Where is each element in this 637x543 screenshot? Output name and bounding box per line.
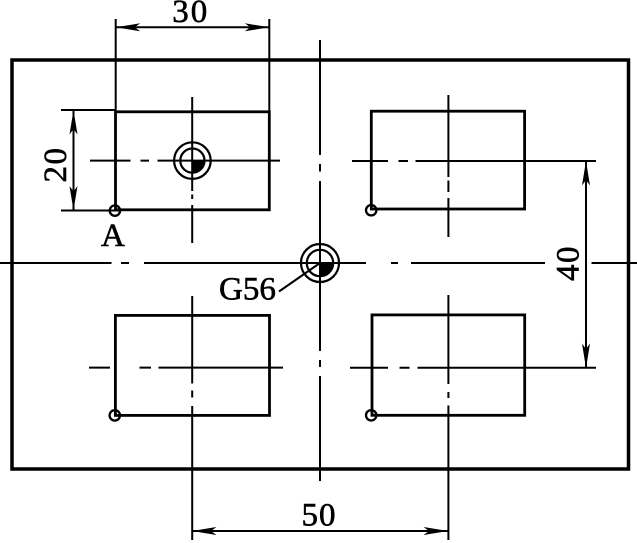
- datum target symbol at top-left pocket center: [174, 142, 211, 179]
- plate outline: [12, 60, 629, 469]
- corner node circle at point A (top-left pocket): [110, 205, 120, 215]
- corner node circle (bottom-right pocket): [366, 410, 376, 420]
- datum target symbol at plate center (G56 origin): [301, 244, 339, 282]
- dimension 40: dimension line with arrows: [585, 161, 587, 368]
- plate vertical centerline: [319, 40, 321, 481]
- centerline vertical, top-right pocket: [447, 95, 449, 237]
- svg-text:30: 30: [172, 0, 209, 30]
- dimension 50: dimension line with arrows: [192, 530, 448, 532]
- svg-text:20: 20: [38, 147, 74, 183]
- pocket rectangle bottom-left: [115, 315, 269, 415]
- dimension 30: dimension line with arrows: [116, 26, 270, 28]
- centerline horizontal, bottom-left pocket: [89, 367, 283, 369]
- dimension 20: dimension line with arrows: [73, 110, 75, 211]
- centerline vertical, bottom-left pocket (also 50-dim extension): [191, 296, 193, 540]
- centerline horizontal, top-left pocket: [90, 160, 280, 162]
- pocket rectangle top-right: [371, 111, 524, 209]
- svg-text:A: A: [101, 218, 125, 254]
- centerline horizontal, top-right pocket (also 40-dim extension): [352, 160, 596, 162]
- dimension 20: extension lines: [61, 110, 120, 211]
- pocket rectangle bottom-right: [372, 315, 525, 415]
- pocket rectangle top-left: [116, 112, 270, 210]
- centerline vertical, top-left pocket: [191, 97, 193, 243]
- centerline vertical, bottom-right pocket (also 50-dim extension): [447, 295, 449, 540]
- svg-text:40: 40: [551, 245, 587, 281]
- corner node circle (top-right pocket): [366, 205, 376, 215]
- plate horizontal centerline: [0, 262, 637, 264]
- svg-text:50: 50: [302, 498, 337, 534]
- dimension 30: extension lines: [116, 19, 270, 112]
- svg-text:G56: G56: [219, 272, 276, 308]
- G56 leader line: [279, 263, 320, 292]
- centerline horizontal, bottom-right pocket (also 40-dim extension): [350, 367, 596, 369]
- corner node circle (bottom-left pocket): [110, 410, 120, 420]
